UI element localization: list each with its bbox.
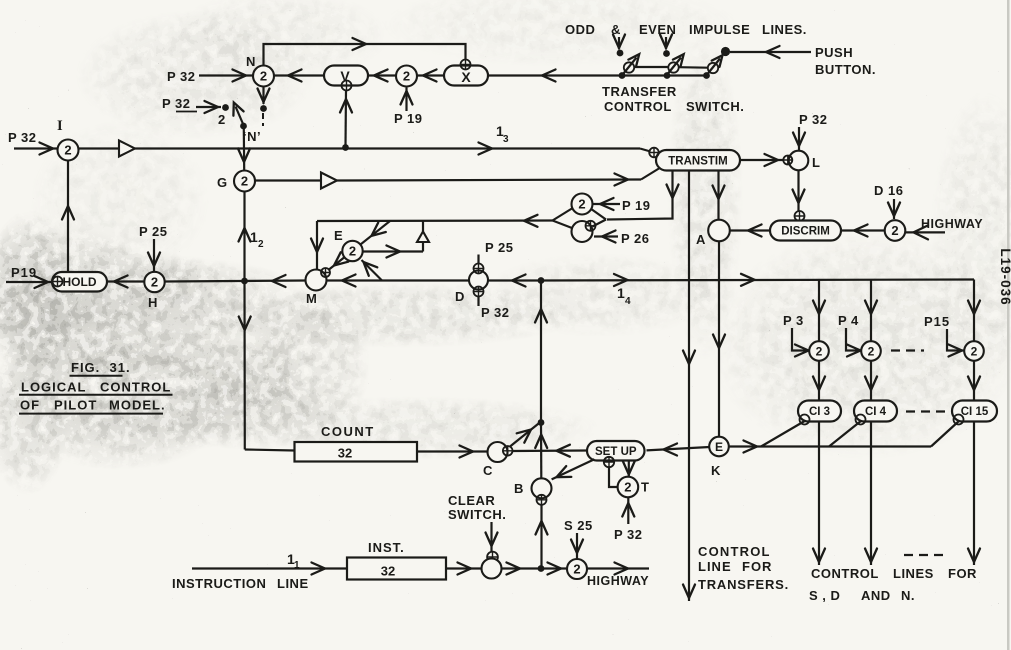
connection circle on B bottom xyxy=(537,495,547,505)
svg-text:H: H xyxy=(148,295,158,310)
mixer B circle xyxy=(532,478,552,498)
svg-text:2: 2 xyxy=(868,344,875,358)
svg-text:2: 2 xyxy=(349,244,356,259)
svg-text:PILOT: PILOT xyxy=(54,398,97,413)
svg-text:FOR: FOR xyxy=(948,566,977,581)
svg-text:FOR: FOR xyxy=(742,559,772,574)
svg-text:2: 2 xyxy=(64,143,71,158)
svg-text:CONTROL: CONTROL xyxy=(100,380,171,395)
wire gate down to CI 15 xyxy=(973,360,975,400)
wire P26 into mixer xyxy=(594,235,618,237)
wire even impulse drop xyxy=(665,37,667,49)
svg-text:D 16: D 16 xyxy=(874,183,903,198)
even contact dot xyxy=(663,50,670,57)
connection circle on TRANSTIM top left xyxy=(649,148,659,158)
clear switch contact circles xyxy=(487,552,498,563)
svg-text:P19: P19 xyxy=(11,265,37,280)
svg-text:P 25: P 25 xyxy=(139,224,168,239)
svg-text:COUNT: COUNT xyxy=(321,424,375,439)
wire P32 to I xyxy=(14,147,57,149)
wire CI 15 down to bottom arrow xyxy=(973,422,975,566)
wire P19 up into gate xyxy=(405,88,407,112)
wire column CI 3 from I4 line xyxy=(818,280,820,342)
wire DISCRIM to A xyxy=(730,229,770,231)
wire D16 down into gate xyxy=(893,199,895,219)
branch diagonal to CI 3 xyxy=(761,421,806,447)
wire gate down to CI 4 xyxy=(870,361,872,401)
svg-text:32: 32 xyxy=(338,446,352,461)
feedback wire top of E group xyxy=(317,219,553,222)
wire A down to E xyxy=(718,241,720,436)
gate (circle 2) on highway input xyxy=(885,220,906,241)
wire CI 3 down to bottom arrow xyxy=(818,422,820,566)
wire SET UP connection elbow to T xyxy=(609,467,618,487)
mixer C circle xyxy=(488,442,508,462)
node A circle xyxy=(708,220,730,242)
wire P32 to N xyxy=(199,74,252,76)
svg-text:IMPULSE: IMPULSE xyxy=(689,22,750,37)
svg-text:SET UP: SET UP xyxy=(595,446,637,458)
wire P15 elbow into gate xyxy=(947,329,964,351)
wire amplifier up to feedback line xyxy=(422,221,424,232)
wire P 4 elbow into gate xyxy=(846,328,862,351)
wire P32 down into L xyxy=(798,127,800,150)
svg-text:3: 3 xyxy=(503,134,509,145)
svg-text:I: I xyxy=(57,118,63,134)
unit D (circle with two connection circles) xyxy=(469,271,488,290)
diagonal wire from main line up to E xyxy=(362,260,383,281)
wire L down to DISCRIM xyxy=(797,170,799,211)
wire column CI 15 from corner xyxy=(973,341,975,343)
wire SET UP to E xyxy=(647,447,710,450)
svg-text:2: 2 xyxy=(258,239,264,250)
switch contact dot 2 xyxy=(222,104,229,111)
HOLD unit oval xyxy=(52,272,107,292)
gate (circle 2) for CI 3 xyxy=(809,341,829,361)
svg-text:MODEL.: MODEL. xyxy=(109,398,166,413)
wire G vertical down to COUNT xyxy=(243,192,245,282)
gate (circle 2) fed by P19 in diamond xyxy=(553,208,574,221)
svg-text:L19-036: L19-036 xyxy=(998,248,1011,305)
wire C diagonal up to B vertical dot xyxy=(510,424,539,447)
connection circle on P26 mixer xyxy=(586,221,596,231)
amplifier triangle on G line xyxy=(321,173,337,189)
svg-text:2: 2 xyxy=(218,112,226,127)
svg-text:LINES.: LINES. xyxy=(762,22,807,37)
svg-text:E: E xyxy=(715,440,723,454)
switch lever 1 xyxy=(624,58,637,74)
gate (circle 2) fed by P19 xyxy=(396,66,417,87)
branch diagonal to CI 15 xyxy=(931,421,960,447)
switch contact circle 2 xyxy=(668,62,678,72)
wire B vertical from main line to INST line xyxy=(540,281,542,423)
svg-text:S , D: S , D xyxy=(809,588,840,603)
wire CI 4 down to bottom arrow xyxy=(870,422,872,566)
svg-text:2: 2 xyxy=(403,69,410,84)
wire H to HOLD xyxy=(107,280,144,282)
diagonal wire SET UP to B xyxy=(552,459,595,479)
wire P 3 elbow into gate xyxy=(792,328,810,351)
wire S25 down into gate xyxy=(576,533,578,559)
wire gate to highway xyxy=(587,567,649,569)
svg-text:CI 4: CI 4 xyxy=(865,406,887,418)
svg-text:P15: P15 xyxy=(924,314,950,329)
svg-text:CLEAR: CLEAR xyxy=(448,493,495,508)
amplifier triangle on I line xyxy=(119,141,135,157)
junction dot on G vertical xyxy=(241,278,248,285)
svg-text:HOLD: HOLD xyxy=(63,275,97,289)
wire column CI 4 from I4 line xyxy=(870,280,872,342)
svg-text:TRANSFER: TRANSFER xyxy=(602,84,677,99)
junction dot main line / B vertical xyxy=(538,277,545,284)
svg-text:TRANSFERS.: TRANSFERS. xyxy=(698,577,789,592)
svg-text:SWITCH.: SWITCH. xyxy=(686,99,744,114)
wire V to N xyxy=(274,74,324,76)
gate E (circle 2) xyxy=(342,241,362,261)
wire P25 to D xyxy=(477,255,479,264)
wire I4 line to right edge xyxy=(541,280,974,281)
INST register box xyxy=(347,558,446,580)
gate S (circle 2) xyxy=(567,559,587,579)
wire TRANSTIM to L xyxy=(740,159,784,161)
svg-text:G: G xyxy=(217,175,228,190)
wire X to gate xyxy=(417,74,444,76)
unit CI 3 oval xyxy=(798,401,841,422)
wire TRANSTIM control line down (transfers) xyxy=(688,170,690,601)
svg-text:TRANSTIM: TRANSTIM xyxy=(668,155,727,167)
svg-text:2: 2 xyxy=(573,562,580,577)
wire highway into gate xyxy=(906,231,946,233)
amplifier triangle pointing up xyxy=(417,232,429,243)
wire COUNT to C xyxy=(417,450,488,452)
wire V down to I3 line xyxy=(344,91,347,147)
svg-text:2: 2 xyxy=(816,344,823,358)
svg-text:32: 32 xyxy=(381,564,395,579)
unit CI 4 oval xyxy=(854,401,897,422)
mixer M circle xyxy=(306,270,327,291)
svg-text:K: K xyxy=(711,463,721,478)
svg-text:CI 15: CI 15 xyxy=(961,406,989,418)
wire instruction line to INST box xyxy=(192,567,347,569)
connection circle on X top xyxy=(461,60,471,70)
switch lever with arrow xyxy=(236,107,244,126)
svg-text:LINE: LINE xyxy=(698,559,732,574)
wire INST box to clear switch xyxy=(446,567,482,569)
svg-text:B: B xyxy=(514,481,524,496)
svg-text:CI 3: CI 3 xyxy=(809,406,830,418)
push button dot xyxy=(721,47,730,56)
svg-text:CONTROL: CONTROL xyxy=(698,544,771,559)
gate H (circle 2) xyxy=(144,272,164,292)
svg-text:AND: AND xyxy=(861,588,891,603)
connection circle on HOLD left xyxy=(53,277,63,287)
svg-text:FIG. 31.: FIG. 31. xyxy=(71,360,131,375)
wire clear switch down xyxy=(490,522,492,552)
svg-text:M: M xyxy=(306,291,317,306)
wire P19 to HOLD xyxy=(6,281,52,283)
junction dot on B vertical xyxy=(538,419,545,426)
wire G to amplifier xyxy=(255,179,321,181)
wire G line to TRANSTIM xyxy=(337,180,641,181)
connection circle on CI 3 xyxy=(800,415,810,425)
svg-text:CONTROL: CONTROL xyxy=(604,99,672,114)
wire switch line to X xyxy=(488,74,707,76)
junction dot INST line / B vertical xyxy=(538,565,545,572)
svg-text:P 32: P 32 xyxy=(481,305,510,320)
wire TRANSTIM down-left branch to P19/P26 gates xyxy=(607,170,673,220)
svg-text:HIGHWAY: HIGHWAY xyxy=(921,217,983,231)
underline under 32 xyxy=(176,111,197,113)
svg-text:4: 4 xyxy=(625,296,631,307)
junction dot on I3 line under V xyxy=(342,144,349,151)
svg-text:DISCRIM: DISCRIM xyxy=(781,226,830,238)
switch contact circle 1 xyxy=(624,62,634,72)
svg-text:T: T xyxy=(641,480,649,495)
svg-text:X: X xyxy=(461,69,471,85)
gate N (circle 2) xyxy=(253,66,274,87)
SET UP unit oval xyxy=(587,441,645,461)
switch lever 3 xyxy=(708,59,721,75)
connection circle on V bottom xyxy=(342,81,352,91)
svg-text:SWITCH.: SWITCH. xyxy=(448,507,506,522)
svg-text:2: 2 xyxy=(260,69,267,84)
wire M to D main line xyxy=(327,279,470,281)
svg-text:LOGICAL: LOGICAL xyxy=(21,380,87,395)
svg-text:P 32: P 32 xyxy=(614,527,643,542)
dashes between bottom arrows xyxy=(904,554,945,556)
svg-text:INSTRUCTION: INSTRUCTION xyxy=(172,576,266,591)
svg-text:HIGHWAY: HIGHWAY xyxy=(587,574,649,588)
svg-text:ODD: ODD xyxy=(565,22,595,37)
gate I (circle 2) xyxy=(58,140,79,161)
wire E right along K line xyxy=(729,445,931,447)
connection circle on CI 15 xyxy=(954,415,964,425)
wire TRANSTIM down to A xyxy=(717,170,719,220)
svg-text:C: C xyxy=(483,463,493,478)
dashes between P4 and P15 gates xyxy=(891,349,924,351)
connection circle on L left xyxy=(783,156,792,165)
svg-text:L: L xyxy=(812,155,820,170)
mixer L circle xyxy=(789,151,809,171)
switch connector wires xyxy=(634,66,668,68)
wire P25 down to H xyxy=(153,239,155,272)
wire P32 to D xyxy=(477,297,479,307)
svg-text:S 25: S 25 xyxy=(564,518,593,533)
valve X (oval) xyxy=(444,66,488,86)
svg-text:P 32: P 32 xyxy=(167,69,196,84)
svg-text:BUTTON.: BUTTON. xyxy=(815,62,876,77)
svg-text:A: A xyxy=(696,232,706,247)
wire highway gate to DISCRIM xyxy=(841,229,885,231)
svg-text:CONTROL: CONTROL xyxy=(811,566,879,581)
svg-text:LINES: LINES xyxy=(893,566,934,581)
diagonal wire feedback to E to M xyxy=(329,221,390,270)
mixer circle fed by P26 in diamond xyxy=(572,221,593,242)
COUNT register box xyxy=(295,442,418,462)
svg-text:N: N xyxy=(246,54,256,69)
wire odd impulse drop xyxy=(618,37,620,49)
svg-text:P 32: P 32 xyxy=(799,112,828,127)
wire clear switch to S gate xyxy=(502,567,568,569)
gate G (circle 2) xyxy=(234,171,255,192)
wire P32 to switch contact xyxy=(196,106,221,108)
svg-text:2: 2 xyxy=(241,174,248,189)
dashed switch throw xyxy=(262,113,264,126)
svg-text:P 19: P 19 xyxy=(622,198,651,213)
svg-text:P 25: P 25 xyxy=(485,240,514,255)
svg-text:‘N’: ‘N’ xyxy=(243,129,261,144)
wire down-left of E group to M xyxy=(316,221,318,269)
connection circle on SET UP bottom xyxy=(604,457,614,467)
wire E right to amplifier xyxy=(363,250,424,252)
wire I circle down to HOLD xyxy=(67,161,69,273)
wire right end turning down to P15 column xyxy=(973,280,975,343)
branch diagonal to CI 4 xyxy=(829,421,862,447)
switch line dots xyxy=(619,72,626,79)
wire push button xyxy=(730,51,811,53)
svg-text:2: 2 xyxy=(151,275,158,290)
svg-text:D: D xyxy=(455,289,465,304)
wire C line to SET UP xyxy=(513,449,588,452)
unit CI 15 oval xyxy=(952,401,997,422)
dashes between CI 4 and CI 15 xyxy=(906,410,945,412)
svg-text:N.: N. xyxy=(901,588,915,603)
wire H to M junction xyxy=(165,281,306,282)
svg-text:INST.: INST. xyxy=(368,540,405,555)
wire gate to V xyxy=(368,74,396,76)
contact dot below N xyxy=(260,105,267,112)
TRANSTIM unit oval xyxy=(656,150,740,171)
svg-text:2: 2 xyxy=(971,344,978,358)
odd contact dot xyxy=(617,50,624,57)
svg-text:2: 2 xyxy=(891,223,898,238)
node E (circle) on transfer line xyxy=(709,437,729,457)
connection circle on C right xyxy=(503,446,513,456)
switch lever 2 xyxy=(668,58,681,74)
svg-text:P 19: P 19 xyxy=(394,111,423,126)
gate T (circle 2) xyxy=(618,477,639,498)
wire I3 line to TRANSTIM xyxy=(135,147,640,149)
svg-text:P 3: P 3 xyxy=(783,313,804,328)
svg-text:2: 2 xyxy=(624,480,631,495)
gate (circle 2) for CI 15 xyxy=(964,341,984,361)
wire N bottom stub to contact dot xyxy=(262,87,264,105)
wire switch pivot down to G xyxy=(243,129,246,170)
svg-text:P 26: P 26 xyxy=(621,231,650,246)
gate (circle 2) for CI 4 xyxy=(861,341,881,361)
connection circle on M top right xyxy=(321,268,330,277)
wire P19 into gate xyxy=(593,203,621,205)
svg-text:E: E xyxy=(334,228,343,243)
wire I to amplifier xyxy=(79,147,120,149)
wire SET UP down into T xyxy=(628,461,630,477)
wire P32 up into T xyxy=(627,497,629,524)
connection circle on CI 4 xyxy=(856,415,866,425)
svg-text:2: 2 xyxy=(578,197,585,212)
svg-text:OF: OF xyxy=(20,398,40,413)
svg-text:P 32: P 32 xyxy=(8,130,37,145)
feedback wire from N over top to X xyxy=(264,44,466,66)
wire D to B junction xyxy=(488,279,541,281)
connection circle on DISCRIM top xyxy=(795,211,805,221)
valve V (oval) xyxy=(324,66,368,86)
switch pivot dot xyxy=(240,123,247,130)
wire gate down to CI 3 xyxy=(818,361,820,401)
svg-text:P 32: P 32 xyxy=(162,96,191,111)
switch contact circle 3 xyxy=(708,63,718,73)
svg-text:LINE: LINE xyxy=(277,576,309,591)
svg-text:PUSH: PUSH xyxy=(815,45,853,60)
svg-text:P 4: P 4 xyxy=(838,313,859,328)
DISCRIM unit oval xyxy=(770,221,841,241)
